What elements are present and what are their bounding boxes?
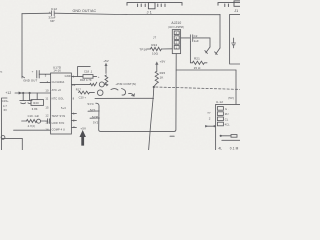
svg-text:C2: C2 [194,34,198,38]
svg-text:4.7(2): 4.7(2) [28,124,36,128]
junction dot B [28,92,30,94]
junction dot on U-12 wire [213,125,215,127]
svg-text:C20 +: C20 + [79,95,87,99]
wire TP to R16 [104,83,106,85]
svg-text:TP16: TP16 [139,48,147,52]
svg-text:6V: 6V [4,108,8,112]
svg-text:SYC: SYC [87,102,94,106]
wire AJ210 pin3 to C2 [181,37,190,39]
connector J1 right bracket [218,1,241,7]
connector box bottom left [2,138,23,150]
pin 1 [174,45,179,49]
pin box a [217,107,223,111]
test point circle [37,119,41,123]
svg-text:C15+: C15+ [2,99,9,103]
svg-text:G .: G . [225,107,229,111]
capacitor C16 at IC pin5 [37,71,39,79]
wire C2 to corner [193,38,210,47]
svg-text:J 1: J 1 [147,10,152,14]
wire GND OUT/AC top horizontal left of C12 [22,12,51,15]
svg-text:1K: 1K [160,76,164,80]
wire down into U-12 box [235,70,237,104]
svg-text:C19 .1uF: C19 .1uF [28,114,40,118]
resistor row26 [90,82,97,86]
resistor R15 vertical [155,71,158,83]
wire +12 rail [15,92,51,94]
svg-text:C12: C12 [51,7,57,11]
pin 3 [174,36,179,40]
connector J1 left bracket [127,3,182,9]
resistor R22 [150,47,161,50]
wire pin7 stub [22,76,51,82]
junction dot inside U-12 [220,135,222,137]
svg-text:1uF: 1uF [194,39,199,43]
pin box c [217,117,223,121]
wire +12 rail to R20 [36,93,38,100]
squiggle arrow 2 [129,93,135,96]
svg-text:MJ: MJ [225,112,229,116]
wire pin14 row [14,129,51,131]
box U-12 bottom right [216,104,240,150]
svg-text:15 Ω: 15 Ω [194,66,202,70]
svg-text:GND: GND [65,74,71,78]
squiggle arrow 1 [111,89,126,96]
svg-text:5+3: 5+3 [61,106,66,110]
svg-text:CL: CL [225,117,229,121]
svg-text:10Ω: 10Ω [152,51,159,55]
capacitor C17 [48,119,50,124]
svg-text:R15: R15 [160,71,166,75]
resistor pack R20 box [31,100,44,106]
wire R15 bottom to junction [154,83,157,86]
wire IC pin2 stub [71,119,76,121]
wire inside U-12 lower [222,139,240,141]
svg-text:C18 .1: C18 .1 [84,69,93,73]
capacitor C3 inside right box [232,38,236,48]
pin box b [217,112,223,116]
svg-text:TEST SYN: TEST SYN [52,114,66,118]
junction dot A [22,92,24,94]
connector U AJ210 box [172,30,180,54]
svg-text:+12: +12 [5,91,11,95]
wire IC pin1 stub [71,112,76,114]
svg-text:CH GNDA: CH GNDA [52,80,65,84]
svg-text:(4CV LPMHZ): (4CV LPMHZ) [168,27,184,29]
wire SY1 underline [88,110,99,112]
svg-text:10: 10 [45,89,49,93]
wire to cap [41,120,48,122]
svg-text:2: 2 [209,116,211,120]
svg-text:ATC +6: ATC +6 [52,88,62,92]
svg-text:+P/M CONT(N): +P/M CONT(N) [115,82,136,86]
capacitor C15 plates [20,101,27,104]
svg-text:5Y2: 5Y2 [93,121,99,125]
pin 4 [174,31,179,35]
wire stub bottom mid [170,135,174,137]
capacitor C12 [52,11,55,16]
svg-text:NP: NP [50,19,54,23]
test point flag below corner [205,47,210,53]
svg-text:+5V: +5V [160,60,166,64]
connector edge left vertical [2,98,8,150]
svg-text:14-16: 14-16 [53,69,61,73]
arrowhead +12 [19,92,23,95]
svg-text:U-12: U-12 [216,100,223,104]
wire center vertical (junction to bottom edge) [149,87,154,150]
wire SYP underline [90,117,99,119]
IC U17 box [51,73,72,134]
test point circle TP14 [99,82,104,87]
component box inside U-12 [231,135,237,138]
svg-text:(5V): (5V) [228,96,234,100]
svg-text:4L: 4L [218,146,222,150]
svg-text:4CL: 4CL [225,123,231,127]
pin 2 [174,41,179,45]
svg-text:R17: R17 [76,87,82,91]
resistor R21 [192,61,207,64]
wire TP16 to R22 [147,48,150,50]
wire IC pin3 stub [71,126,76,128]
capacitor C2 [190,35,192,42]
svg-text:15: 15 [45,106,49,110]
svg-text:+: + [98,75,100,79]
svg-text:R20: R20 [33,101,39,105]
svg-text:GND OUT: GND OUT [23,79,37,83]
wire RN1 leads [80,76,97,78]
svg-text:JT: JT [153,36,156,40]
wire C16 to pin5 [39,73,50,75]
wire dot B down [29,93,31,100]
resistor R16 vertical [105,75,108,86]
wire row to center vertical [95,97,154,99]
wire comp row [22,120,27,122]
junction AJ210 pin1 branch [176,69,236,71]
svg-text:J1: J1 [234,9,238,13]
test point circle left edge [1,136,5,140]
resistor network RN1 box [83,75,93,79]
wire top horizontal right of C12 to right end [54,13,220,15]
wire dot A down to C15 [22,93,24,100]
svg-text:LOW SYN: LOW SYN [52,121,65,125]
dashed signal line to right edge [156,87,240,89]
svg-text:12: 12 [45,114,49,118]
wire left vertical drop from corner [21,14,23,78]
resistor R17 [79,91,95,94]
svg-text:0.1 M: 0.1 M [230,146,239,150]
capacitor plates at dot B [27,101,32,104]
svg-text:4.7: 4.7 [3,104,7,108]
resistor R19 [26,120,36,123]
wire R22 to AJ210 [161,48,172,50]
svg-text:11: 11 [45,97,48,101]
svg-text:AJ210: AJ210 [171,21,181,25]
wire arrow into U-12 [205,125,215,127]
svg-text:+: + [49,11,51,15]
box shield top right [230,14,240,64]
svg-text:+5V: +5V [80,127,86,131]
svg-text:GND OUT/AC: GND OUT/AC [73,9,97,13]
test point flag TP at line end [215,48,220,55]
svg-text:+: + [32,69,34,73]
test point circle TP15 [97,90,103,96]
svg-text:6.8K: 6.8K [32,107,38,111]
power arrow +5V thick [80,130,86,146]
svg-text:COMP 4 U: COMP 4 U [52,127,65,131]
svg-text:+5V: +5V [103,59,109,63]
wire vertical end of top line [219,14,221,48]
svg-text:14: 14 [45,128,49,132]
wire inside U-12 [221,135,231,137]
svg-text:R21: R21 [194,56,200,60]
svg-text:R22: R22 [151,43,157,47]
wire C2 left plate down to R21 [190,41,192,62]
power arrow +5V (R15 top) [156,65,158,72]
wire IC pin26 row with resistor [71,84,89,86]
wire IC pin6 up-over [71,67,90,77]
power arrow +5V (R16 top) [105,66,107,74]
pin box d [217,122,223,126]
svg-text:NTC GOL: NTC GOL [52,96,65,100]
wire big U: SYC hook down, across bottom, up to AJ210 pin1 [96,54,176,132]
junction dot node [153,86,155,88]
svg-text:R18 4.7K: R18 4.7K [80,78,92,82]
